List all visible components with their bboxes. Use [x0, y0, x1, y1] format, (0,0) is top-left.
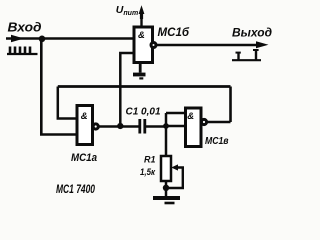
svg-text:Вход: Вход: [8, 20, 42, 35]
svg-text:МС1б: МС1б: [158, 25, 190, 39]
svg-text:МС1 7400: МС1 7400: [56, 182, 95, 196]
svg-text:R1: R1: [144, 154, 156, 164]
svg-text:&: &: [138, 30, 145, 41]
svg-text:&: &: [187, 111, 194, 122]
svg-text:МС1в: МС1в: [205, 135, 229, 147]
svg-text:1,5к: 1,5к: [140, 167, 156, 178]
svg-text:С1 0,01: С1 0,01: [126, 106, 161, 118]
svg-text:МС1а: МС1а: [71, 152, 97, 164]
svg-text:&: &: [81, 111, 88, 122]
svg-text:Выход: Выход: [232, 26, 272, 40]
